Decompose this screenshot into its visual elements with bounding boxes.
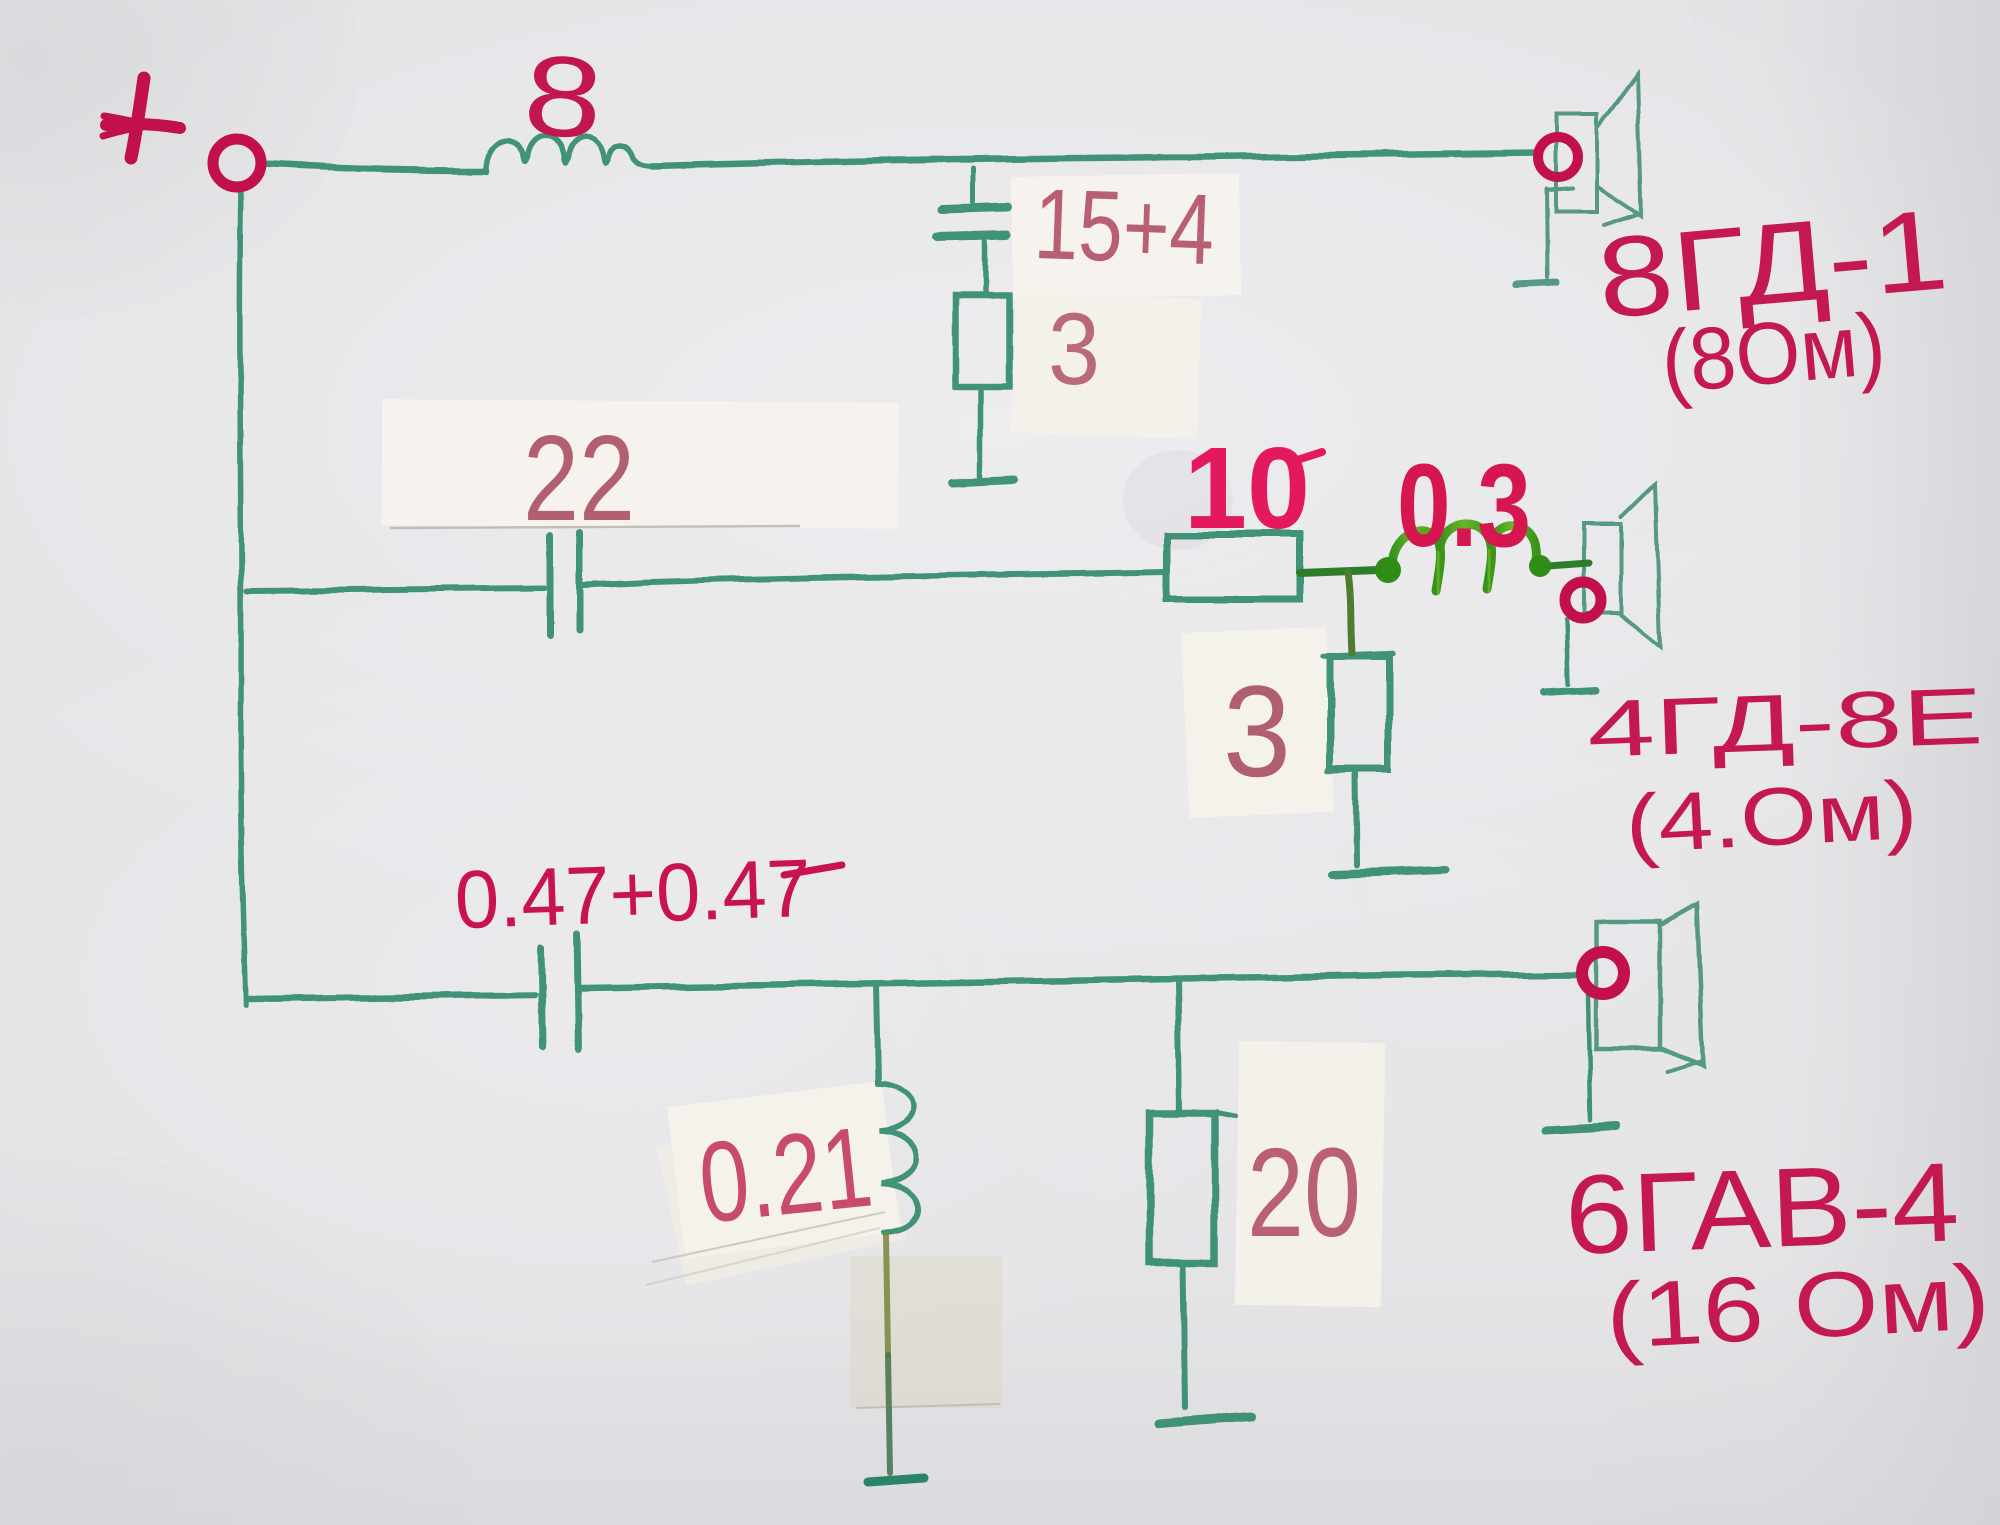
patches for inductor 0.21 label (656, 1100, 906, 1286)
patch for resistor 20 label (1235, 1041, 1386, 1308)
ground (L3 branch) (868, 1478, 924, 1482)
svg-text:3: 3 (1048, 292, 1100, 406)
svg-text:0.21: 0.21 (693, 1103, 877, 1247)
wire C2 to resistor R2 (583, 572, 1166, 585)
shunt wire down to R3 (1348, 572, 1352, 653)
ground (bottom speaker) (1546, 1126, 1616, 1130)
speakers drawn fainter (1516, 74, 1703, 1072)
branch wire to inductor L3 (876, 984, 878, 1084)
svg-text:10: 10 (1184, 423, 1310, 553)
branch wire to resistor R4 (1178, 982, 1180, 1111)
wire from L1 to speaker BA1 (652, 153, 1538, 166)
speaker BA3 (6GAV-4) body (1596, 921, 1660, 1049)
lower wire from L3 to ground (olive tint) (886, 1235, 888, 1355)
ground (R4) (1158, 1417, 1252, 1424)
wire stub under mid speaker terminal to ground (1566, 621, 1568, 685)
node stub to capacitor C1 (971, 168, 976, 202)
speaker BA1 cone (1597, 74, 1641, 216)
svg-text:(16 Ом): (16 Ом) (1603, 1246, 1992, 1368)
capacitor C2 (22) plates (546, 536, 553, 634)
resistor R4 (20) (1149, 1113, 1215, 1262)
patch for resistor 3 label (top branch) (1011, 293, 1202, 439)
svg-text:22: 22 (523, 410, 635, 546)
terminal at BA3 (1582, 952, 1624, 994)
svg-text:20: 20 (1247, 1122, 1361, 1263)
wire from + terminal to inductor L1 (263, 164, 486, 170)
wire L2 to speaker BA2 (1548, 563, 1589, 566)
svg-text:8: 8 (520, 31, 607, 163)
capacitor C1 (15+4) plates (943, 207, 1007, 209)
speaker BA1 (8GD-1) body (1556, 114, 1597, 212)
speaker BA2 (4GD-8E) body (1585, 524, 1621, 613)
inductor L1 (8) on top wire (486, 137, 652, 171)
L2 end blobs (1375, 557, 1401, 583)
inductor L2 (0.3) bright green (1392, 524, 1536, 591)
speaker BA3 cone (1660, 904, 1703, 1066)
wire R4 to ground (1183, 1262, 1185, 1408)
terminal at BA2 (1565, 582, 1601, 618)
input terminal + (213, 139, 261, 187)
wire C1 to R1 (981, 241, 987, 295)
plus sign (103, 78, 180, 158)
left vertical wire from + terminal (240, 190, 246, 1006)
bottom wire right of C3 to speaker BA3 (583, 974, 1580, 988)
patch for capacitor 22 label (382, 399, 899, 529)
wire R1 to ground (978, 388, 984, 477)
svg-text:4ГД-8Е: 4ГД-8Е (1586, 671, 1985, 774)
speaker BA1 ground lead (1550, 188, 1572, 190)
wire stub under bottom speaker to ground (1588, 992, 1590, 1120)
wire R2 to L2 (1300, 570, 1378, 573)
ground (mid speaker) (1544, 690, 1596, 693)
svg-text:15+4: 15+4 (1032, 168, 1216, 286)
bottom wire left of capacitor C3 (250, 995, 535, 999)
patch for resistor 3 label (mid branch) (1181, 627, 1334, 818)
svg-text:3: 3 (1223, 658, 1291, 804)
svg-text:(8Ом): (8Ом) (1657, 293, 1889, 411)
wire R3 to ground (1356, 775, 1357, 866)
inductor L3 (0.21) (878, 1084, 919, 1233)
patch for capacitor 15+4 label (1011, 173, 1241, 299)
resistor R1 (3) top branch (955, 295, 1009, 386)
resistor R3 (3) mid shunt (1330, 656, 1388, 770)
faint old tape patch under 0.21 branch (850, 1256, 1002, 1408)
ground (top branch) (952, 481, 1015, 484)
terminal at BA1 (1538, 137, 1578, 177)
resistor R2 (10) (1166, 535, 1300, 599)
ground (mid shunt) (1331, 871, 1448, 875)
svg-text:0.47+0.47: 0.47+0.47 (453, 843, 812, 946)
svg-text:(4.Ом): (4.Ом) (1623, 764, 1919, 870)
wire from left bus to capacitor C2 (247, 588, 543, 591)
capacitor C3 (0.47+0.47) plates (541, 949, 543, 1048)
svg-text:0.3: 0.3 (1397, 440, 1531, 572)
speaker BA2 cone (1621, 484, 1660, 646)
